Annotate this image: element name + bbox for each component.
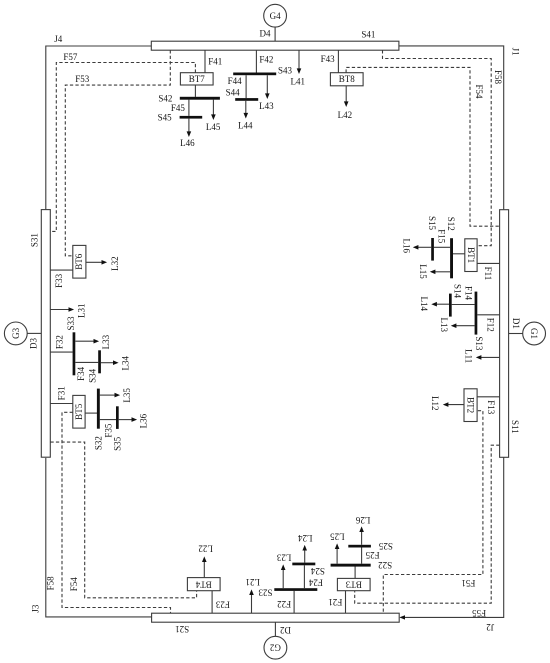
svg-text:L13: L13 (439, 318, 449, 333)
wire BT3 to busbar S22 (354, 567, 356, 579)
tie feeder F54 (dashed, D3 bus to BT4) (50, 442, 196, 598)
svg-text:F25: F25 (365, 550, 380, 560)
svg-text:G3: G3 (11, 327, 21, 338)
feeder F13 (477, 397, 500, 415)
busbar S12 (446, 217, 456, 279)
load L45 (206, 100, 221, 132)
svg-text:G4: G4 (270, 11, 281, 21)
busbar S25 (348, 541, 393, 551)
tie line J3 (30, 458, 151, 617)
tie feeder F54 (dashed, BT8 to D1 bus) (346, 67, 499, 226)
svg-text:S41: S41 (361, 30, 375, 40)
svg-text:S14: S14 (452, 284, 462, 299)
transformer BT7 (180, 73, 213, 85)
svg-text:S44: S44 (226, 88, 241, 98)
tie feeder F51 (dashed, BT2 to D2 bus) (383, 411, 483, 614)
feeder F15 (434, 229, 450, 247)
busbar S14 (449, 284, 462, 317)
svg-text:S11: S11 (510, 420, 520, 434)
busbar S45 (158, 113, 203, 123)
feeder F43 (321, 50, 339, 72)
load L41 (291, 50, 306, 86)
svg-text:L34: L34 (121, 355, 131, 370)
svg-text:F32: F32 (54, 335, 64, 349)
svg-text:L15: L15 (418, 264, 428, 279)
feeder F33 (50, 270, 72, 288)
svg-text:G2: G2 (270, 643, 281, 653)
wire G1 to busbar (509, 333, 523, 335)
svg-text:S33: S33 (66, 316, 76, 331)
svg-text:F57: F57 (63, 52, 78, 62)
feeder F31 (50, 386, 72, 403)
feeder F25 (362, 548, 380, 564)
busbar S13 (474, 292, 484, 351)
feeder F22 (277, 591, 294, 613)
svg-text:S32: S32 (94, 436, 104, 450)
svg-text:L26: L26 (355, 515, 370, 525)
svg-text:F15: F15 (437, 229, 447, 244)
svg-text:G1: G1 (529, 328, 539, 339)
feeder F23 (212, 591, 230, 614)
svg-text:J4: J4 (54, 34, 63, 44)
busbar D4 / S41 (151, 29, 399, 51)
svg-text:BT3: BT3 (345, 580, 362, 590)
svg-text:L45: L45 (206, 122, 221, 132)
load L13 (439, 318, 475, 333)
svg-text:L36: L36 (138, 413, 148, 428)
svg-text:J3: J3 (30, 604, 40, 613)
feeder F41 (205, 50, 222, 72)
svg-text:L21: L21 (245, 577, 260, 587)
load L43 (259, 75, 274, 111)
svg-text:F34: F34 (76, 366, 86, 381)
busbar D1 / S11 (500, 210, 522, 458)
transformer BT3 (337, 578, 370, 590)
svg-text:BT1: BT1 (466, 247, 476, 263)
busbar S22 (331, 560, 393, 570)
load L22 (198, 543, 213, 577)
svg-text:BT8: BT8 (339, 74, 356, 84)
busbar S34 (88, 350, 101, 383)
wire G3 to busbar (27, 332, 41, 334)
load L11 (463, 349, 499, 363)
svg-text:L46: L46 (180, 138, 195, 148)
svg-text:F44: F44 (228, 76, 243, 86)
generator G1 (523, 322, 546, 345)
wire G2 to busbar (274, 622, 276, 636)
transformer BT4 (187, 578, 220, 591)
load L24 (297, 533, 312, 563)
svg-text:F11: F11 (483, 267, 493, 281)
svg-text:L44: L44 (238, 121, 253, 131)
busbar S35 (113, 406, 123, 451)
svg-text:F58: F58 (45, 576, 55, 591)
wire G4 to busbar (274, 27, 276, 41)
load L35 (100, 388, 132, 403)
svg-text:F12: F12 (485, 318, 495, 332)
feeder F35 (100, 420, 116, 438)
feeder F34 (75, 362, 98, 381)
load L33 (75, 334, 111, 349)
svg-text:L35: L35 (122, 388, 132, 403)
svg-text:D3: D3 (29, 338, 39, 349)
svg-text:L24: L24 (297, 533, 312, 543)
svg-text:S35: S35 (113, 436, 123, 451)
svg-text:F54: F54 (474, 84, 484, 99)
load L46 (180, 119, 195, 149)
load L14 (419, 296, 449, 311)
svg-text:L22: L22 (198, 543, 213, 553)
load L21 (245, 577, 260, 613)
svg-text:L11: L11 (463, 349, 473, 363)
tie feeder F58 (dashed, BT5 to D2 bus) (45, 412, 170, 613)
load L26 (355, 515, 370, 545)
svg-text:L31: L31 (76, 303, 86, 318)
svg-text:S23: S23 (258, 588, 273, 598)
load L16 (402, 239, 432, 254)
load L36 (119, 413, 149, 428)
svg-text:F58: F58 (493, 70, 503, 85)
wire BT1 to busbar S12 (453, 253, 465, 255)
svg-text:F33: F33 (54, 273, 64, 288)
feeder F21 (328, 591, 345, 614)
transformer BT6 (73, 245, 86, 278)
busbar S43 (233, 66, 292, 76)
load L31 (50, 303, 86, 318)
svg-text:BT2: BT2 (466, 397, 476, 413)
svg-text:D4: D4 (260, 29, 271, 39)
svg-text:F43: F43 (321, 54, 336, 64)
tie feeder F55 (dashed, D1 bus to BT3) (355, 445, 500, 618)
load L34 (101, 355, 131, 370)
feeder F12 (477, 315, 499, 332)
tie feeder F58 (dashed, D4 bus to BT1) (383, 50, 503, 246)
svg-text:L16: L16 (402, 239, 412, 254)
feeder F32 (50, 335, 72, 352)
generator G4 (264, 4, 287, 27)
svg-text:F14: F14 (464, 286, 474, 301)
svg-text:L33: L33 (101, 334, 111, 349)
busbar D2 / S21 (152, 613, 400, 635)
svg-text:S12: S12 (446, 217, 456, 231)
svg-text:F23: F23 (215, 600, 230, 610)
svg-text:S42: S42 (158, 94, 172, 104)
svg-text:S15: S15 (427, 216, 437, 231)
svg-text:F54: F54 (69, 577, 79, 592)
svg-text:F13: F13 (486, 400, 496, 415)
svg-text:D2: D2 (280, 625, 291, 635)
transformer BT8 (330, 73, 363, 86)
svg-text:F22: F22 (277, 599, 291, 609)
feeder F44 (228, 75, 247, 98)
feeder F24 (304, 565, 323, 588)
svg-text:S25: S25 (378, 541, 393, 551)
load L23 (276, 552, 291, 588)
svg-text:F21: F21 (328, 597, 342, 607)
generator G2 (264, 636, 287, 659)
busbar S44 (226, 88, 259, 101)
svg-text:L43: L43 (259, 101, 274, 111)
tie line J4 (46, 34, 152, 209)
transformer BT1 (465, 239, 477, 272)
feeder F14 (452, 286, 475, 305)
svg-text:D1: D1 (511, 318, 521, 329)
svg-text:S13: S13 (474, 336, 484, 351)
load L32 (86, 256, 120, 271)
load L42 (338, 86, 353, 120)
svg-text:L14: L14 (419, 296, 429, 311)
busbar S23 (258, 588, 317, 598)
tie feeder F57 (dashed, BT7 to D3 bus) (50, 52, 195, 231)
svg-text:L41: L41 (291, 76, 306, 86)
svg-text:S21: S21 (175, 624, 189, 634)
svg-text:F51: F51 (461, 578, 475, 588)
transformer BT5 (73, 395, 85, 428)
svg-text:F53: F53 (75, 74, 90, 84)
svg-text:S45: S45 (158, 113, 173, 123)
svg-text:BT5: BT5 (74, 403, 84, 420)
feeder F45 (171, 100, 189, 116)
load L15 (418, 264, 450, 279)
busbar S33 (66, 316, 76, 375)
svg-text:J1: J1 (511, 48, 521, 56)
feeder F42 (256, 50, 273, 72)
load L12 (430, 396, 464, 411)
tie line J1 (399, 46, 521, 210)
svg-text:S34: S34 (88, 368, 98, 383)
svg-text:J2: J2 (486, 622, 494, 632)
busbar S24 (292, 563, 325, 576)
svg-text:F31: F31 (57, 386, 67, 400)
svg-text:F24: F24 (308, 577, 323, 587)
svg-text:F42: F42 (259, 54, 273, 64)
transformer BT2 (464, 389, 477, 422)
svg-text:S31: S31 (30, 233, 40, 247)
tie feeder F53 (dashed, D4 bus to BT6) (65, 50, 170, 256)
busbar S42 (158, 94, 220, 104)
busbar S15 (427, 216, 437, 261)
svg-text:L12: L12 (430, 396, 440, 411)
svg-text:BT6: BT6 (74, 253, 84, 270)
feeder F11 (477, 263, 500, 280)
svg-text:BT7: BT7 (189, 74, 206, 84)
svg-text:F55: F55 (472, 608, 487, 618)
svg-text:S24: S24 (310, 566, 325, 576)
svg-text:BT4: BT4 (195, 579, 212, 589)
svg-text:F45: F45 (171, 103, 186, 113)
svg-text:F41: F41 (208, 57, 222, 67)
svg-text:L32: L32 (110, 256, 120, 271)
svg-text:F35: F35 (103, 423, 113, 438)
load L44 (238, 101, 253, 131)
svg-text:L23: L23 (276, 552, 291, 562)
busbar D3 / S31 (29, 210, 51, 458)
generator G3 (4, 322, 27, 345)
load L25 (330, 531, 345, 563)
wire BT5 to busbar S32 (85, 412, 97, 414)
svg-text:S43: S43 (278, 66, 293, 76)
svg-text:L42: L42 (338, 110, 353, 120)
svg-text:S22: S22 (378, 560, 392, 570)
busbar S32 (94, 389, 104, 451)
svg-text:L25: L25 (330, 531, 345, 541)
wire BT7 to busbar S42 (194, 85, 196, 97)
tie line J2 (399, 457, 503, 632)
